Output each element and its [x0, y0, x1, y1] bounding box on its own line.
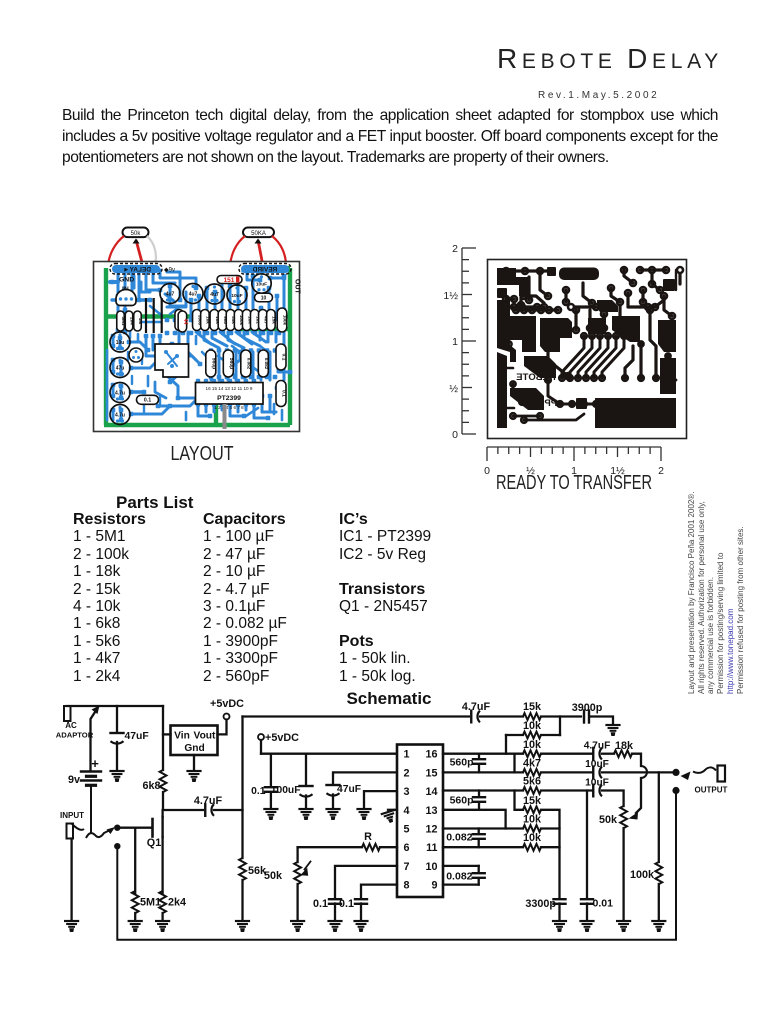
wire pin 10 stub — [443, 865, 479, 867]
wire pin 16 row — [443, 753, 523, 755]
capacitor 4.7uF coupling from Q1 — [163, 809, 203, 811]
capacitor 0.1 right — [276, 344, 286, 370]
resistor 4k7 — [523, 769, 541, 776]
credits rotated text — [686, 693, 688, 695]
svg-text:16: 16 — [425, 749, 437, 761]
resistor row r1 — [175, 310, 184, 331]
capacitor 47uF filter — [116, 706, 118, 732]
resistor row r11 — [267, 310, 276, 331]
IC PT2399 on layout — [196, 383, 264, 405]
svg-text:0.01: 0.01 — [593, 898, 614, 910]
trace green mid horizontal — [106, 317, 290, 330]
svg-text:47uF: 47uF — [125, 731, 149, 742]
capacitor 10uF circle 4 — [227, 285, 247, 305]
svg-text:0.1: 0.1 — [251, 786, 266, 797]
svg-text:18k: 18k — [615, 740, 634, 752]
resistor 56k mix node — [241, 717, 243, 859]
transistor on layout — [116, 290, 136, 306]
wire pin 9 stub — [443, 883, 479, 885]
svg-text:10uF: 10uF — [585, 777, 609, 788]
title — [0, 43, 723, 75]
trace green left rail — [104, 268, 108, 425]
capacitor 0.01 — [586, 791, 588, 899]
wire +5v rail to pin 1 — [261, 753, 397, 755]
transistor small circle — [129, 348, 143, 362]
svg-text:10k: 10k — [523, 720, 542, 732]
voltage regulator IC2 box — [171, 726, 218, 756]
capacitor 560p v2 — [223, 350, 233, 377]
wire pin 3 to ground — [364, 791, 397, 808]
ground pin 3 — [358, 808, 371, 810]
capacitor 0.1 small oval — [137, 395, 159, 404]
svg-text:0.082: 0.082 — [446, 871, 472, 883]
wire link pin14 to 15k — [515, 791, 524, 810]
ground under 100k — [652, 920, 665, 922]
capacitor 0.1 pin8 — [355, 898, 367, 900]
ground under 47uF — [111, 770, 124, 772]
svg-text:4k7: 4k7 — [523, 758, 541, 770]
wire feedback rail — [243, 715, 470, 717]
connector strip right mirrored — [239, 264, 291, 275]
resistor row r2 — [193, 310, 202, 331]
wire pin 8 decouple — [361, 885, 397, 898]
trace green bottom center vertical — [214, 384, 218, 425]
resistor R delay set — [380, 846, 397, 848]
svg-text:8: 8 — [404, 880, 410, 892]
resistor row r10 — [259, 310, 268, 331]
resistor 15k lp — [523, 806, 541, 813]
svg-text:5k6: 5k6 — [523, 776, 541, 788]
svg-text:12: 12 — [425, 824, 437, 836]
trace green right mid stub — [266, 315, 290, 319]
wire battery negative to bypass switch — [90, 787, 92, 833]
connector strip left mirrored — [110, 264, 162, 275]
svg-text:2: 2 — [404, 767, 410, 779]
ground under 56k — [236, 920, 249, 922]
svg-text:0.1: 0.1 — [313, 898, 328, 910]
svg-text:10k: 10k — [523, 814, 542, 826]
bypass switch wavy arrow — [72, 824, 84, 830]
wire red pot1 center — [136, 240, 143, 266]
resistor row r3 — [201, 310, 210, 331]
wire red pot2 center — [258, 240, 263, 266]
potentiometer 50k delay — [296, 847, 298, 862]
resistor 10k feedback 2 — [506, 734, 523, 736]
svg-text:4: 4 — [404, 805, 410, 817]
capacitor 0.1 pin7 — [329, 898, 341, 900]
resistor row r12 — [277, 308, 287, 332]
ground pin 4 — [382, 810, 398, 824]
capacitor 10uF top right circle — [252, 274, 271, 293]
transistor Q1 2N5457 — [151, 819, 154, 837]
wire pin 15 row — [443, 771, 523, 773]
svg-text:Schematic: Schematic — [346, 689, 431, 708]
copper pattern — [497, 267, 683, 428]
svg-text:100k: 100k — [630, 869, 655, 881]
capacitor 47uF reference bypass — [327, 784, 340, 786]
svg-text:0.082: 0.082 — [446, 832, 472, 844]
svg-text:ADAPTOR: ADAPTOR — [56, 731, 94, 740]
potentiometer 50kA log above board — [243, 228, 274, 238]
capacitor 47u left 2 — [110, 358, 130, 378]
wire gate of Q1 — [117, 827, 152, 829]
svg-text:4.7uF: 4.7uF — [194, 795, 223, 807]
wire input jack sleeve to ground — [70, 839, 72, 921]
svg-text:6: 6 — [404, 842, 410, 854]
svg-text:OUTPUT: OUTPUT — [695, 786, 728, 795]
ruler vertical — [462, 248, 476, 434]
connector strip left blue bar — [112, 265, 160, 273]
trace green right rail — [288, 268, 292, 425]
resistor 10k lp1 — [523, 825, 541, 832]
wire top rail from AC jack to 6k8 — [67, 705, 163, 707]
wire down to pin 16 row — [505, 735, 507, 754]
PCB board outline — [94, 262, 300, 432]
svg-text:INPUT: INPUT — [60, 811, 84, 820]
capacitor 0.1 supply bypass — [270, 754, 272, 786]
svg-text:+: + — [91, 756, 99, 771]
svg-text:+5vDC: +5vDC — [210, 698, 244, 710]
svg-text:14: 14 — [425, 786, 437, 798]
ground under 100uF — [300, 808, 313, 810]
resistor 2k4 source — [159, 891, 166, 913]
ground pin8 cap — [355, 920, 368, 922]
capacitor 560p v1 — [206, 350, 216, 377]
jumper wire 1 — [145, 298, 147, 333]
connector strip right blue bar — [241, 265, 289, 273]
svg-text:56k: 56k — [248, 865, 267, 877]
ground under 2k4 — [156, 920, 169, 922]
svg-text:Vin: Vin — [174, 731, 190, 742]
wire bypass bottom run — [117, 791, 676, 940]
svg-text:11: 11 — [426, 842, 437, 854]
resistor 10k pin16 — [523, 750, 541, 757]
svg-text:9v: 9v — [68, 774, 80, 786]
capacitor 560p pin14-13 — [478, 791, 480, 796]
ground pin7 cap — [329, 920, 342, 922]
ground under 47uF — [327, 808, 340, 810]
wire red pot2 right — [272, 236, 286, 266]
jumper wire 2 — [153, 298, 155, 333]
wire battery positive with arrow — [91, 709, 98, 771]
AC adaptor jack J1 — [64, 706, 71, 721]
capacitor 0.082 v2 — [258, 350, 268, 377]
svg-text:3900p: 3900p — [572, 702, 603, 714]
capacitor 0.082 pin10-9 — [478, 866, 480, 872]
wire pin 4 to ground — [388, 809, 397, 811]
intro paragraph — [62, 105, 718, 168]
svg-text:560p: 560p — [450, 757, 474, 769]
svg-text:1: 1 — [404, 749, 410, 761]
resistor 6k8 — [162, 706, 164, 770]
svg-text:10k: 10k — [523, 739, 542, 751]
svg-text:+5vDC: +5vDC — [265, 732, 299, 744]
capacitor 100uF supply — [305, 754, 307, 786]
resistor row r7 — [234, 310, 243, 331]
wire pin 11 row — [443, 846, 523, 848]
jumper wire 3 — [161, 298, 163, 333]
resistor row r6 — [226, 310, 235, 331]
capacitor 4u7 circle 3 — [205, 284, 225, 304]
wire red pot2 left — [230, 236, 245, 266]
ground under 50k delay pot — [291, 920, 304, 922]
resistor 2k4 left — [125, 311, 133, 331]
trace green top right — [243, 266, 290, 270]
node output bypass — [672, 787, 679, 794]
ground under 3900p — [607, 724, 620, 726]
svg-text:0.1: 0.1 — [339, 898, 354, 910]
svg-text:3: 3 — [404, 786, 410, 798]
resistor 10k lp2 — [523, 844, 541, 851]
resistor 5M1 left — [117, 311, 125, 331]
resistor row r4 — [210, 310, 219, 331]
svg-text:2k4: 2k4 — [168, 897, 186, 909]
ground under 0.1 — [264, 808, 277, 810]
wire pin 2 reference — [333, 772, 397, 784]
IC U1 PT2399 box — [397, 745, 443, 898]
ground under 5M1 — [129, 920, 142, 922]
ruler horizontal — [487, 447, 661, 461]
ground under level pot — [617, 920, 630, 922]
wire gray jumper bottom — [223, 404, 227, 429]
trace blue network — [107, 270, 290, 420]
capacitor 0.082 pin12-11 — [478, 829, 480, 833]
capacitor 4u7 circle 2 — [183, 284, 203, 304]
capacitor 0.082 v1 — [241, 350, 251, 377]
ground under 0.01 — [581, 920, 594, 922]
svg-text:Q1: Q1 — [147, 837, 161, 849]
svg-text:5: 5 — [404, 824, 410, 836]
svg-text:100uF: 100uF — [271, 785, 301, 796]
ground under 3300p — [553, 920, 566, 922]
potentiometer 50k level — [620, 806, 627, 828]
capacitor 0.1 right lower — [276, 381, 286, 407]
capacitor 3300p — [554, 898, 566, 900]
resistor 15k feedback — [523, 713, 541, 720]
wire regulator Gnd pin — [193, 755, 195, 770]
capacitor 560p pin16-15 — [478, 754, 480, 758]
resistor 1M left — [134, 311, 142, 331]
resistor 151 red label — [217, 276, 242, 284]
OUTPUT jack J3 — [718, 766, 726, 782]
svg-text:Gnd: Gnd — [184, 743, 204, 754]
pads blue — [110, 267, 293, 422]
resistor 5M1 gate bias — [134, 828, 136, 893]
resistor row r8 — [242, 310, 251, 331]
node switch throw B — [114, 843, 120, 849]
svg-text:4.7uF: 4.7uF — [584, 741, 611, 752]
wire white pot1 right — [147, 236, 156, 266]
wire junction down to 10k — [559, 717, 561, 736]
svg-text:10uF: 10uF — [585, 759, 609, 770]
node switch throw A — [114, 825, 120, 831]
wire pin 7 decouple — [335, 866, 397, 898]
ground under input jack — [65, 920, 78, 922]
svg-text:15k: 15k — [523, 795, 542, 807]
trace green bottom rail — [104, 423, 290, 427]
wire pin 14 row — [443, 789, 523, 791]
node output wet — [672, 769, 679, 776]
resistor row r9 — [250, 310, 259, 331]
output switch arrow — [693, 767, 716, 772]
svg-text:R: R — [364, 831, 372, 843]
resistor 5k6 — [523, 787, 541, 794]
resistor 18k — [614, 750, 632, 757]
svg-text:10k: 10k — [523, 832, 542, 844]
svg-text:7: 7 — [404, 861, 410, 873]
transfer board outline — [488, 260, 687, 439]
svg-text:560p: 560p — [450, 795, 474, 807]
regulator outline on layout — [155, 344, 189, 377]
resistor 100k output load — [658, 772, 660, 862]
svg-text:5M1: 5M1 — [140, 897, 161, 909]
svg-text:13: 13 — [425, 805, 437, 817]
parts list — [116, 494, 193, 511]
svg-text:15k: 15k — [523, 701, 542, 713]
svg-text:10: 10 — [425, 861, 437, 873]
wire 18k down to tone pot with hop — [632, 754, 641, 766]
capacitor 4.7u left 4 — [110, 405, 130, 425]
svg-text:15: 15 — [425, 767, 437, 779]
wire pin 12 row — [443, 827, 523, 829]
svg-text:6k8: 6k8 — [142, 780, 160, 792]
wire pin 13 row — [443, 810, 506, 829]
resistor 44 red — [178, 311, 187, 332]
svg-text:3300p: 3300p — [525, 898, 556, 910]
capacitor 10 oval — [255, 293, 273, 302]
svg-text:50k: 50k — [264, 870, 283, 882]
svg-text:Vout: Vout — [194, 731, 216, 742]
potentiometer 50k lin above board — [123, 228, 149, 238]
capacitor 4.7u left 3 — [110, 383, 130, 403]
wire red pot1 left — [108, 236, 124, 266]
wire link pin16-pin15 — [513, 754, 515, 773]
capacitor 4u7 circle 1 — [160, 284, 180, 304]
svg-text:4.7uF: 4.7uF — [462, 701, 491, 713]
svg-text:AC: AC — [65, 721, 77, 730]
resistor row r5 — [218, 310, 227, 331]
wire regulator Vin — [163, 733, 171, 735]
svg-text:50k: 50k — [599, 814, 618, 826]
svg-text:47uF: 47uF — [337, 784, 361, 795]
ground under regulator — [188, 770, 201, 772]
capacitor 10u left 1 — [110, 332, 130, 352]
svg-text:9: 9 — [431, 880, 437, 892]
